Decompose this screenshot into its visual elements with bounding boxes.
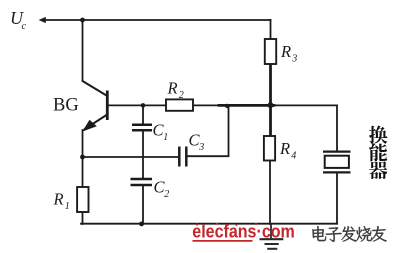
wire collector drop from top rail xyxy=(82,20,84,81)
resistor R2 body xyxy=(166,99,193,110)
resistor R3 body xyxy=(265,39,276,64)
watermark char 子 xyxy=(326,227,342,242)
node cross junction R3/R4 xyxy=(268,102,274,108)
wire R4 bottom to rail xyxy=(269,161,271,225)
svg-text:1: 1 xyxy=(163,132,168,143)
svg-text:elecfans·com: elecfans·com xyxy=(192,221,294,242)
watermark char 电 xyxy=(312,226,326,241)
watermark char 烧 xyxy=(356,226,372,241)
resistor R1 body xyxy=(77,187,88,212)
transistor Q1 base bar xyxy=(106,91,109,121)
node junction C2 on rail xyxy=(139,222,144,227)
wire C2 bottom to rail xyxy=(142,186,144,224)
capacitor C2 plates xyxy=(131,179,153,185)
transducer crystal body xyxy=(325,156,349,168)
transducer label char 器 xyxy=(369,161,387,179)
wire below R1 xyxy=(82,212,84,224)
transistor Q1 collector diagonal xyxy=(83,81,107,96)
transducer crystal bottom plate xyxy=(323,171,351,173)
wire transducer drop xyxy=(336,105,338,150)
capacitor C3 plates xyxy=(179,147,186,167)
watermark underline xyxy=(193,240,253,242)
wire bold segment at cross node xyxy=(219,104,274,107)
capacitor C1 plates xyxy=(132,125,152,130)
svg-text:BG: BG xyxy=(53,96,79,116)
wire bottom ground rail xyxy=(81,223,337,225)
node junction base/C1 xyxy=(141,103,146,108)
watermark char 发 xyxy=(341,226,356,241)
svg-text:R: R xyxy=(280,42,291,61)
transducer label char 能 xyxy=(369,143,387,161)
node junction top rail xyxy=(80,18,85,23)
svg-text:3: 3 xyxy=(291,54,297,65)
wire C1 bottom to C2 top xyxy=(142,131,144,179)
wire C1 top connection xyxy=(142,105,144,124)
transistor Q1 emitter diagonal xyxy=(84,115,107,130)
node junction feedback riser xyxy=(225,104,229,108)
wire emitter node to C3 xyxy=(83,156,179,158)
svg-text:2: 2 xyxy=(164,189,169,200)
svg-text:3: 3 xyxy=(198,142,204,153)
wire top rail xyxy=(44,19,271,21)
wire C3 right to feedback riser xyxy=(187,105,229,156)
wire base line right of R2 xyxy=(193,104,337,106)
wire R3 top lead xyxy=(270,20,272,39)
resistor R4 body xyxy=(264,136,275,161)
svg-text:4: 4 xyxy=(291,151,296,162)
transistor Q1 emitter arrowhead xyxy=(82,120,97,132)
svg-text:2: 2 xyxy=(179,90,184,101)
svg-text:R: R xyxy=(53,190,64,209)
transducer crystal top plate xyxy=(323,151,351,153)
svg-text:R: R xyxy=(167,79,178,98)
svg-text:R: R xyxy=(279,139,290,158)
wire emitter vertical xyxy=(82,130,84,187)
watermark accent dots xyxy=(196,223,257,226)
transducer label char 换 xyxy=(369,126,387,144)
svg-text:1: 1 xyxy=(65,201,70,212)
node junction emitter xyxy=(80,155,85,160)
svg-text:c: c xyxy=(22,21,27,32)
wire R3 bottom lead through cross to R4 top xyxy=(269,64,272,136)
arrow input terminal xyxy=(39,17,46,23)
ground symbol xyxy=(260,224,284,249)
wire below transducer xyxy=(336,172,338,223)
wire base line left xyxy=(107,104,166,106)
watermark char 友 xyxy=(371,226,386,241)
